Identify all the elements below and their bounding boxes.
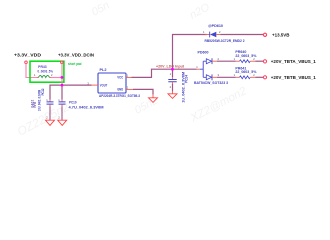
svg-text:@PD610: @PD610: [208, 24, 223, 28]
power symbol +3.3V_VDD_DCIN: [61, 61, 64, 64]
ground: [46, 120, 55, 125]
svg-text:PC10: PC10: [69, 101, 77, 105]
ground: [168, 94, 177, 99]
junction dot: [61, 84, 64, 87]
wire PR640 to connector: [255, 60, 263, 62]
svg-text:+3.3V_VDD: +3.3V_VDD: [14, 53, 42, 59]
resistor R PR641 22_0603_5%: [234, 66, 257, 78]
offpage connector TBTB: [263, 76, 266, 79]
power symbol +3.3V_VDD: [25, 61, 28, 64]
wire junction up and over to diode PD610: [173, 35, 207, 70]
svg-text:AP2204R-3.3TRG1_SOT89-3: AP2204R-3.3TRG1_SOT89-3: [99, 94, 140, 98]
wire PR641 to connector: [255, 76, 263, 78]
svg-text:+3.3V_VDD_DCIN: +3.3V_VDD_DCIN: [58, 53, 94, 59]
wire PL2 GND to ground: [133, 89, 153, 94]
offpage connector TBTA: [263, 60, 266, 63]
svg-text:4.7U_0402_6.3V6M: 4.7U_0402_6.3V6M: [69, 106, 104, 110]
wire through resistor PR43 to junction (selected, pink): [51, 77, 62, 79]
label RFB (rotated note): [31, 99, 38, 107]
capacitor PC12 10U_0402_6.3V6M: [37, 88, 53, 120]
svg-text:+20V_TBTA_VBUS_1: +20V_TBTA_VBUS_1: [271, 59, 316, 65]
offpage connector +13.5VB: [263, 33, 266, 36]
dual diode PD600 BAT54CW: [194, 50, 228, 85]
junction dot: [61, 76, 64, 79]
svg-text:VCC: VCC: [117, 76, 124, 80]
svg-text:+20V_TBTB_VBUS_1: +20V_TBTB_VBUS_1: [271, 75, 316, 81]
ground: [58, 120, 67, 125]
regulator U PL2 AP2204R: [87, 68, 140, 98]
svg-text:0_0603_5%: 0_0603_5%: [38, 69, 54, 73]
svg-text:+20V_LDO Input: +20V_LDO Input: [156, 65, 185, 69]
wire branch to capacitors: [50, 85, 62, 100]
capacitor PC10 4.7U_0402_6.3V6M: [58, 98, 104, 120]
wire PL2 VCC up to +20V_LDO junction: [132, 69, 173, 77]
svg-text:RB520SW-3CT2R_EMD2 2: RB520SW-3CT2R_EMD2 2: [205, 39, 245, 43]
capacitor PC24: [168, 69, 188, 103]
wire PD610 to +13.5VB: [221, 34, 264, 36]
diode D PD610 RB520SW: [203, 24, 245, 43]
svg-text:+13.5VB: +13.5VB: [272, 33, 290, 39]
svg-text:1U_0402_6.3V6M: 1U_0402_6.3V6M: [182, 71, 186, 102]
resistor R PR640 22_0603_5%: [234, 50, 257, 63]
svg-text:VOUT: VOUT: [100, 83, 108, 87]
wire +3.3V_VDD down to PR43 pin 1 (selected, pink): [26, 64, 37, 78]
resistor R PR43 0_0603_5%: [34, 65, 53, 77]
svg-text:BAT54CW_SOT323 3: BAT54CW_SOT323 3: [194, 81, 228, 85]
wire PD600 top to PR640: [217, 60, 236, 62]
svg-text:PD600: PD600: [198, 50, 209, 54]
junction dot: [171, 68, 174, 71]
svg-text:10U_0402_6.3V6M: 10U_0402_6.3V6M: [37, 90, 41, 111]
svg-text:0402: 0402: [31, 99, 35, 107]
highlight box (selection) around PR43: [30, 61, 64, 82]
ground: [149, 98, 158, 103]
wire PD600 bottom to PR641: [217, 76, 236, 78]
watermark: [15, 0, 249, 139]
svg-text:short pad: short pad: [68, 62, 82, 66]
svg-text:PL2: PL2: [100, 68, 107, 72]
svg-text:GND: GND: [117, 88, 124, 92]
wire +3.3V_VDD_DCIN vertical (selected, pink): [61, 64, 63, 86]
wire junction right to PD600: [173, 68, 197, 70]
wire VOUT net to PL2 pin 3: [62, 84, 92, 86]
